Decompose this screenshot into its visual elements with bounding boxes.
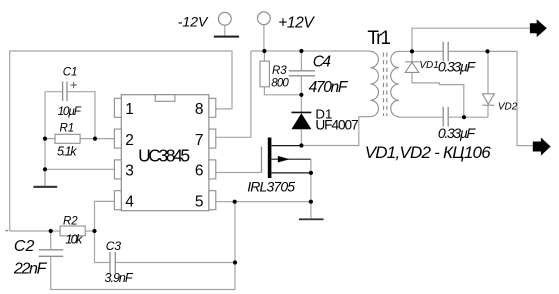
svg-text:0.33µF: 0.33µF [438, 60, 477, 76]
svg-text:22nF: 22nF [13, 261, 48, 278]
svg-text:4: 4 [125, 193, 134, 210]
transistor Q1 IRL3705 channel bar [268, 138, 272, 179]
wire: D1 bottom lead [300, 129, 302, 145]
transistor Q1 drain line [271, 145, 301, 147]
IC U1 pin 3 stub [114, 160, 121, 179]
svg-text:470nF: 470nF [309, 79, 349, 96]
svg-text:C1: C1 [63, 67, 78, 79]
transistor Q1 source line [271, 172, 311, 174]
wire: MOSFET source to ground [310, 173, 312, 219]
svg-text:10k: 10k [65, 233, 83, 247]
svg-text:8: 8 [195, 101, 204, 118]
wire: drain junction to primary bottom [301, 117, 370, 146]
IC U1 notch [155, 95, 175, 102]
capacitor 0.33uF top plates [443, 42, 448, 62]
svg-text:-12V: -12V [178, 13, 209, 29]
wire: pin3 to ground [45, 168, 114, 170]
svg-text:7: 7 [195, 132, 204, 149]
wire: top cap to VD2 node [449, 50, 488, 52]
transformer Tr1 secondary winding [391, 51, 399, 116]
wire: C2 bottom leg and bottom wire [51, 257, 235, 290]
diode VD2 [482, 94, 494, 105]
output arrow bottom [533, 138, 551, 156]
IC U1 pin 7 stub [209, 129, 216, 148]
wire: C2 top leg [50, 231, 52, 249]
wire: +12V stem [263, 25, 265, 51]
wire: secondary top to VD1 node [399, 50, 412, 52]
IC U1 pin 8 stub [209, 98, 216, 117]
svg-text:+12V: +12V [278, 14, 315, 31]
svg-text:5: 5 [195, 193, 204, 210]
svg-text:C2: C2 [14, 238, 35, 255]
wire: C1 loop top and right [45, 92, 95, 139]
wire: bottom cap to VD2 bottom [449, 116, 488, 118]
svg-text:6: 6 [195, 163, 204, 180]
svg-text:C3: C3 [106, 239, 122, 253]
svg-text:IRL3705: IRL3705 [247, 179, 295, 195]
wire: C4 top leg [300, 51, 302, 70]
capacitor C1 plus sign [71, 82, 78, 88]
svg-text:Tr1: Tr1 [367, 28, 391, 49]
wire: R1 right lead to pin2 [80, 138, 114, 140]
capacitor C2 plates [39, 250, 64, 256]
svg-text:800: 800 [271, 78, 289, 90]
wire: secondary bottom to bottom cap [399, 116, 443, 119]
IC U1 pin 4 stub [114, 191, 121, 210]
svg-text:10µF: 10µF [58, 104, 82, 118]
svg-text:VD1: VD1 [419, 60, 438, 71]
wire: ground lead under C1 branch [44, 169, 46, 186]
svg-text:R1: R1 [60, 122, 75, 134]
wire: VD1 bottom lead with jog [412, 72, 464, 117]
wire: R3 top lead [263, 51, 265, 61]
wire: VD2 top lead [487, 51, 489, 93]
transformer Tr1 primary winding [370, 51, 378, 116]
capacitor 0.33uF bottom plates [443, 107, 448, 127]
svg-text:R2: R2 [63, 215, 78, 227]
svg-text:C4: C4 [313, 54, 332, 71]
transistor Q1 body line with arrow [271, 156, 311, 173]
capacitor C1 plates [63, 82, 67, 102]
svg-text:0.33µF: 0.33µF [438, 126, 477, 142]
svg-text:5.1k: 5.1k [57, 145, 77, 159]
wire: left rail bottom to R2 [10, 230, 60, 232]
wire: junction vertical to pin5 wire [234, 202, 236, 290]
wire: R2 right to pin4 [85, 201, 114, 231]
output arrow top [530, 19, 547, 37]
wire: D1 top lead [300, 95, 302, 112]
resistor R1 [55, 134, 80, 143]
diode D1 UF4007 [291, 112, 311, 129]
svg-text:VD1,VD2 - КЦ106: VD1,VD2 - КЦ106 [365, 143, 492, 162]
wire: C3 right to junction [116, 262, 235, 264]
transistor Q1 gate electrode [261, 147, 263, 173]
svg-text:R3: R3 [272, 65, 287, 77]
wire: VD2 node to bottom output [488, 51, 533, 145]
wire: C1 branch left vertical [44, 92, 46, 186]
wire: VD1 top lead [411, 51, 413, 61]
wire: pin7 to +12V rail [216, 51, 251, 137]
svg-text:2: 2 [125, 132, 134, 149]
resistor R2 [60, 226, 85, 236]
wire: pin6 to gate [216, 172, 262, 174]
wire: VD2 bottom lead [487, 105, 489, 117]
stray tick at left edge [5, 230, 8, 232]
diode VD1 [405, 62, 420, 73]
wire: top output tap [412, 28, 530, 51]
capacitor C3 plates [110, 252, 115, 273]
wire: pin5 to MOSFET source [216, 201, 311, 203]
IC U1 pin 5 stub [209, 191, 216, 210]
wire: -12V stem [224, 25, 226, 35]
wire: VD1 node to top cap [412, 50, 443, 52]
transformer Tr1 core [384, 53, 387, 117]
IC U1 pin 1 stub [114, 98, 121, 117]
wire: R1 left lead [45, 138, 55, 140]
IC U1 pin 6 stub [209, 160, 216, 179]
wire: +12V rail to transformer [251, 50, 370, 52]
capacitor C4 plates [289, 71, 315, 76]
svg-text:UC3845: UC3845 [138, 145, 190, 165]
svg-text:3: 3 [125, 163, 134, 180]
resistor R3 [260, 61, 269, 87]
ground bar under C1 branch [33, 186, 57, 188]
svg-text:UF4007: UF4007 [315, 117, 358, 132]
IC U1 UC3845 body [121, 95, 209, 211]
svg-text:3.9nF: 3.9nF [105, 271, 134, 285]
bar under -12V terminal [214, 36, 239, 38]
IC U1 pin 2 stub [114, 129, 121, 148]
terminal circle +12V [258, 12, 271, 25]
terminal circle -12V [218, 12, 231, 25]
svg-text:VD2: VD2 [498, 101, 518, 112]
wire: R3 bottom lead and wire to C4 [264, 87, 301, 95]
wire: pin8 top rail [10, 51, 232, 231]
svg-text:1: 1 [125, 101, 134, 118]
ground bar under MOSFET source [299, 218, 324, 220]
wire: C4 bottom leg [300, 76, 302, 95]
wire: C3 left leg [95, 231, 110, 263]
